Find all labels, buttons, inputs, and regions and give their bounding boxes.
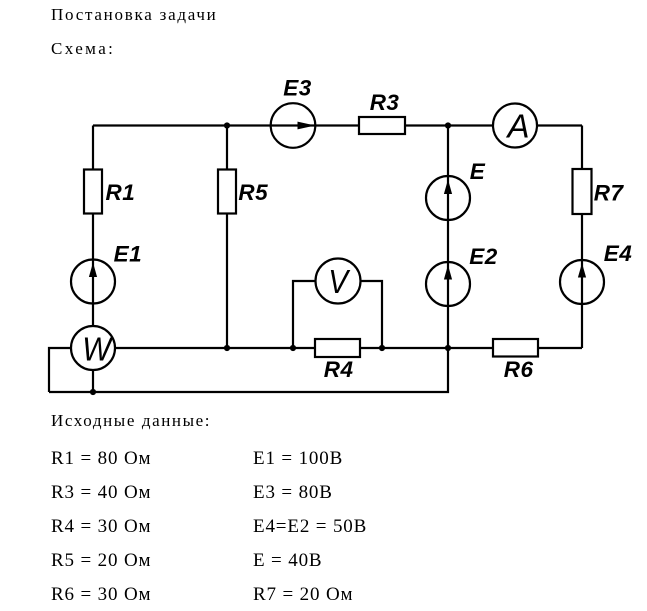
svg-text:E1: E1 — [114, 242, 143, 267]
EMF source E — [426, 176, 470, 220]
svg-text:V: V — [328, 264, 351, 301]
svg-text:W: W — [82, 330, 114, 367]
node junction E2 bottom — [445, 345, 451, 351]
svg-text:R6: R6 — [504, 357, 534, 382]
resistor R7 — [573, 169, 592, 214]
svg-text:R3: R3 — [370, 90, 400, 115]
node junction top middle — [445, 122, 451, 128]
data row 2 — [51, 483, 151, 502]
svg-text:A: A — [506, 107, 530, 144]
wire left rail middle (R1 to W through E1) — [92, 214, 94, 327]
EMF source E1 — [71, 260, 115, 304]
data row 3 — [51, 517, 151, 536]
svg-text:R5: R5 — [238, 180, 268, 205]
wire top-right segment (A to right corner) — [537, 124, 582, 126]
data row 1 — [51, 449, 151, 468]
data heading — [51, 412, 211, 429]
svg-text:E: E — [470, 159, 486, 184]
wire voltmeter right branch — [361, 281, 383, 348]
svg-text:R7: R7 — [594, 181, 625, 206]
wire bottom rail right of R6 — [537, 347, 582, 349]
svg-text:E3: E3 — [283, 76, 312, 101]
wire R5 column — [226, 126, 228, 349]
EMF source E3 — [271, 103, 316, 148]
resistor R4 — [315, 339, 360, 357]
svg-text:E2: E2 — [469, 244, 498, 269]
svg-text:E4: E4 — [604, 241, 633, 266]
wire W left stub and outer loop — [49, 348, 71, 392]
resistor R1 — [84, 170, 102, 214]
wire left rail upper (top corner to R1) — [92, 126, 94, 170]
wire main bottom rail — [115, 347, 315, 349]
node junction top R5 — [224, 122, 230, 128]
wire bottom loop — [49, 348, 448, 392]
ammeter A — [493, 104, 537, 148]
resistor R3 — [359, 117, 405, 134]
wire right rail (through E4) — [581, 126, 583, 349]
wire W bottom stub — [92, 370, 94, 392]
resistor R5 — [218, 170, 236, 214]
resistor R6 — [493, 339, 538, 357]
EMF source E2 — [426, 262, 470, 306]
node junction V left — [290, 345, 296, 351]
wire voltmeter left branch — [293, 281, 316, 348]
EMF source E4 — [560, 260, 604, 304]
title text — [51, 6, 218, 23]
wire middle column (through E and E2) — [447, 126, 449, 349]
node junction V right — [379, 345, 385, 351]
wire top rail — [93, 124, 493, 126]
svg-text:R1: R1 — [106, 180, 136, 205]
node junction R5 bottom — [224, 345, 230, 351]
voltmeter V — [316, 259, 361, 304]
svg-text:R4: R4 — [324, 357, 354, 382]
data row 5 — [51, 585, 151, 604]
schema caption — [51, 40, 115, 57]
node junction W bottom — [90, 389, 96, 395]
wattmeter W — [71, 326, 115, 370]
data row 4 — [51, 551, 151, 570]
wire bottom rail R4-R6 — [360, 347, 493, 349]
